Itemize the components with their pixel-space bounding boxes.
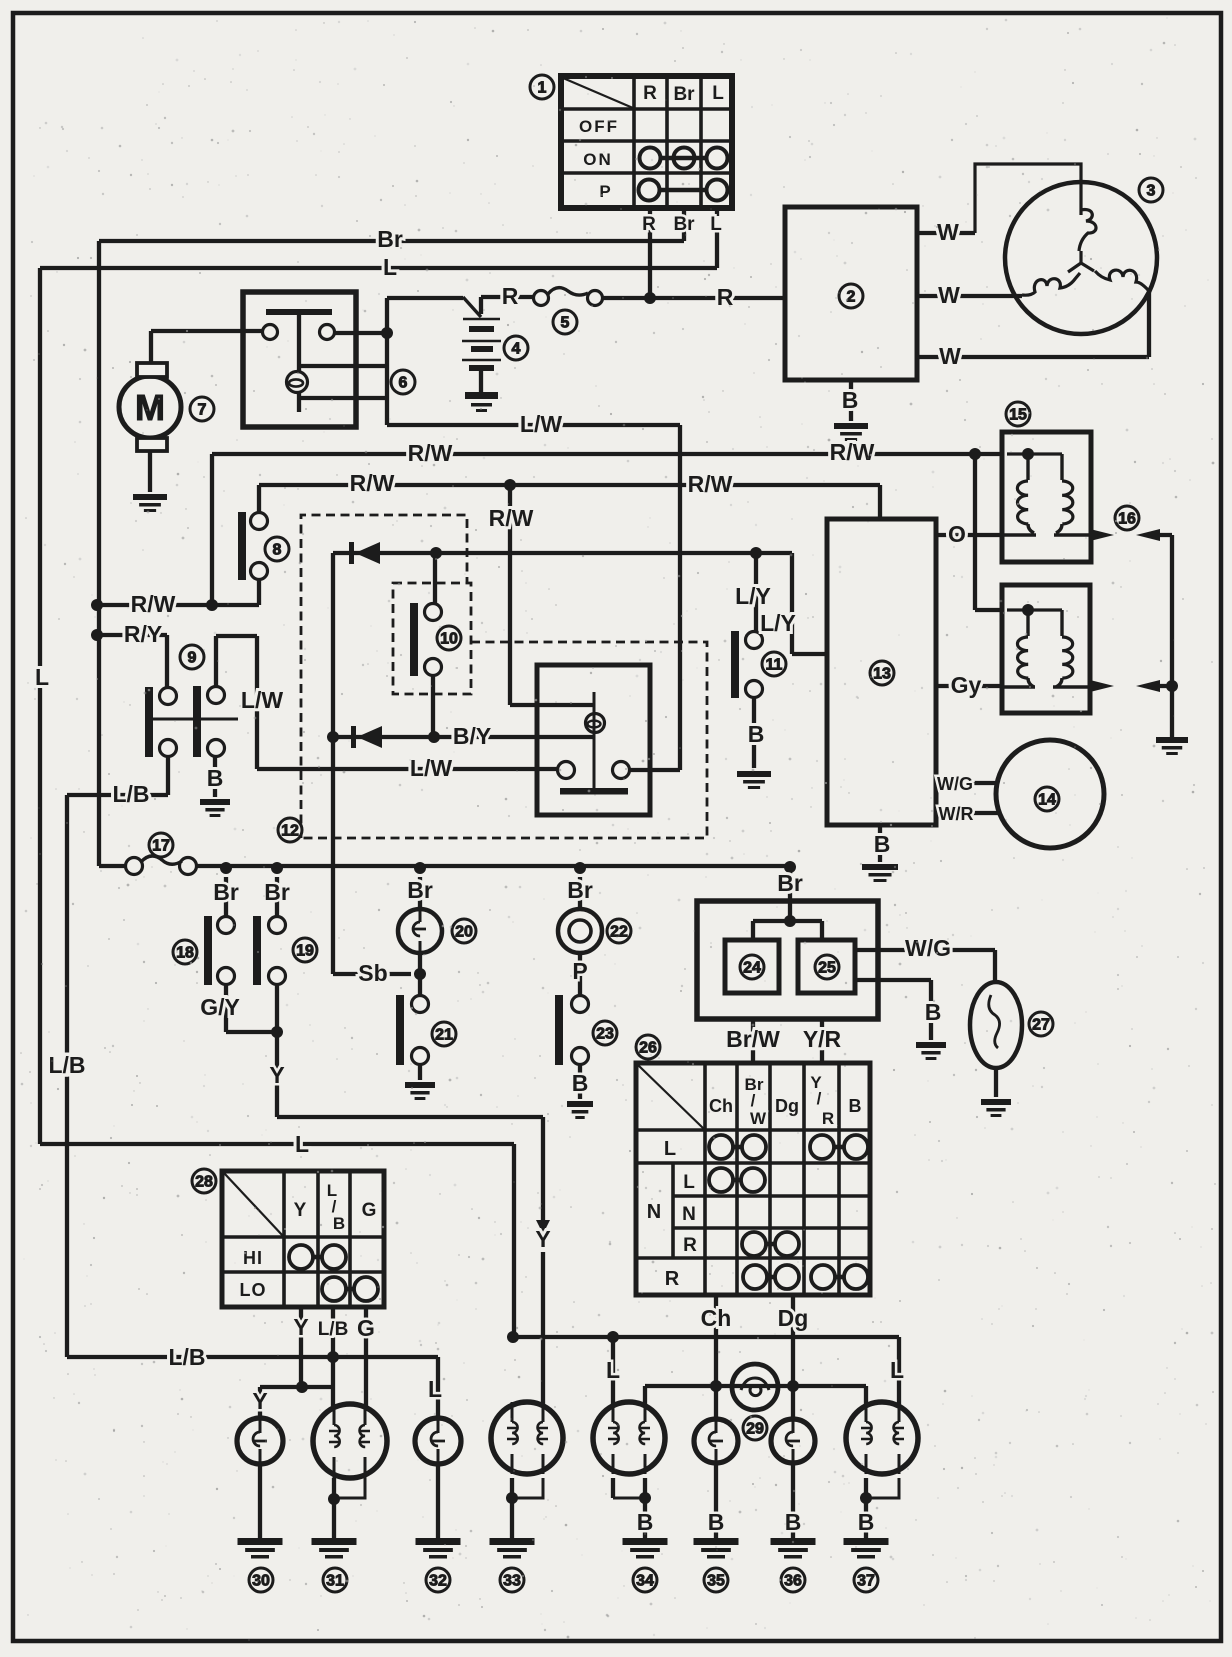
svg-text:B: B bbox=[858, 1509, 875, 1535]
svg-text:31: 31 bbox=[326, 1573, 344, 1590]
svg-text:L: L bbox=[35, 664, 49, 690]
svg-text:Ch: Ch bbox=[709, 1096, 733, 1116]
svg-text:R/W: R/W bbox=[131, 591, 176, 617]
svg-text:8: 8 bbox=[273, 542, 282, 559]
svg-text:14: 14 bbox=[1038, 792, 1056, 809]
svg-text:9: 9 bbox=[188, 650, 197, 667]
svg-text:L/W: L/W bbox=[241, 687, 283, 713]
svg-text:27: 27 bbox=[1032, 1017, 1050, 1034]
svg-text:W/G: W/G bbox=[905, 935, 951, 961]
svg-text:G/Y: G/Y bbox=[200, 994, 240, 1020]
svg-text:R/W: R/W bbox=[489, 505, 534, 531]
svg-text:Br: Br bbox=[777, 870, 803, 896]
svg-text:33: 33 bbox=[503, 1573, 521, 1590]
svg-text:Br: Br bbox=[264, 879, 290, 905]
svg-text:ON: ON bbox=[583, 150, 613, 169]
svg-text:B: B bbox=[708, 1509, 725, 1535]
svg-text:L/Y: L/Y bbox=[735, 583, 771, 609]
svg-text:R/W: R/W bbox=[350, 470, 395, 496]
svg-text:R: R bbox=[642, 214, 656, 235]
svg-text:Y: Y bbox=[269, 1062, 284, 1088]
svg-text:Dg: Dg bbox=[775, 1096, 799, 1116]
svg-text:13: 13 bbox=[873, 666, 891, 683]
svg-text:R/Y: R/Y bbox=[124, 621, 162, 647]
svg-text:L/B: L/B bbox=[318, 1319, 349, 1340]
svg-text:29: 29 bbox=[746, 1421, 764, 1438]
svg-text:15: 15 bbox=[1009, 407, 1027, 424]
svg-text:26: 26 bbox=[639, 1040, 657, 1057]
svg-text:Y/R: Y/R bbox=[803, 1026, 842, 1052]
svg-text:Br: Br bbox=[213, 879, 239, 905]
svg-text:Br: Br bbox=[407, 877, 433, 903]
svg-text:2: 2 bbox=[847, 289, 856, 306]
svg-text:L/Y: L/Y bbox=[760, 610, 796, 636]
svg-text:P: P bbox=[572, 958, 587, 984]
svg-text:3: 3 bbox=[1147, 183, 1156, 200]
svg-text:R: R bbox=[502, 283, 519, 309]
svg-text:32: 32 bbox=[429, 1573, 447, 1590]
svg-text:4: 4 bbox=[512, 341, 521, 358]
svg-text:6: 6 bbox=[399, 375, 408, 392]
svg-text:B: B bbox=[842, 387, 859, 413]
svg-text:Gy: Gy bbox=[951, 672, 982, 698]
svg-text:Y: Y bbox=[293, 1314, 308, 1340]
svg-text:35: 35 bbox=[707, 1573, 725, 1590]
svg-text:G: G bbox=[357, 1315, 375, 1341]
svg-text:37: 37 bbox=[857, 1573, 875, 1590]
svg-text:R/W: R/W bbox=[830, 439, 875, 465]
svg-text:1: 1 bbox=[538, 80, 547, 97]
svg-text:L: L bbox=[890, 1357, 904, 1383]
svg-text:Br: Br bbox=[673, 214, 695, 235]
svg-text:Dg: Dg bbox=[778, 1305, 809, 1331]
svg-text:L: L bbox=[295, 1131, 309, 1157]
svg-text:11: 11 bbox=[766, 657, 783, 674]
svg-text:N: N bbox=[682, 1204, 696, 1225]
svg-text:L/W: L/W bbox=[520, 411, 562, 437]
svg-text:L/B: L/B bbox=[168, 1344, 205, 1370]
svg-text:L/B: L/B bbox=[48, 1052, 85, 1078]
svg-text:P: P bbox=[599, 182, 610, 201]
svg-text:Br/W: Br/W bbox=[726, 1026, 780, 1052]
svg-text:Y: Y bbox=[294, 1200, 307, 1221]
svg-text:G: G bbox=[362, 1200, 377, 1221]
svg-text:36: 36 bbox=[784, 1573, 802, 1590]
svg-text:R/W: R/W bbox=[408, 440, 453, 466]
svg-text:W: W bbox=[939, 343, 961, 369]
svg-text:5: 5 bbox=[561, 315, 570, 332]
svg-text:M: M bbox=[135, 387, 165, 428]
svg-text:B: B bbox=[572, 1070, 589, 1096]
svg-text:W: W bbox=[937, 219, 959, 245]
svg-text:B: B bbox=[637, 1509, 654, 1535]
svg-text:12: 12 bbox=[281, 823, 299, 840]
svg-text:L: L bbox=[712, 83, 724, 104]
svg-text:R: R bbox=[822, 1109, 834, 1128]
svg-text:24: 24 bbox=[743, 960, 761, 977]
svg-text:16: 16 bbox=[1118, 511, 1136, 528]
svg-text:R: R bbox=[683, 1235, 697, 1256]
svg-text:30: 30 bbox=[252, 1573, 270, 1590]
svg-text:B: B bbox=[333, 1214, 345, 1233]
svg-text:17: 17 bbox=[152, 838, 170, 855]
svg-text:W: W bbox=[938, 282, 960, 308]
svg-text:28: 28 bbox=[195, 1174, 213, 1191]
svg-text:B: B bbox=[785, 1509, 802, 1535]
svg-text:Br: Br bbox=[377, 226, 403, 252]
svg-text:L: L bbox=[664, 1138, 676, 1160]
svg-text:B/Y: B/Y bbox=[453, 723, 491, 749]
svg-text:L: L bbox=[710, 214, 722, 235]
svg-text:25: 25 bbox=[818, 960, 836, 977]
svg-text:R: R bbox=[665, 1268, 680, 1290]
svg-text:HI: HI bbox=[243, 1248, 263, 1268]
svg-text:Sb: Sb bbox=[358, 960, 387, 986]
svg-text:W/G: W/G bbox=[937, 774, 973, 794]
svg-text:B: B bbox=[748, 721, 765, 747]
svg-text:Br: Br bbox=[567, 877, 593, 903]
svg-text:21: 21 bbox=[435, 1027, 453, 1044]
svg-text:B: B bbox=[849, 1096, 862, 1116]
svg-text:20: 20 bbox=[455, 924, 473, 941]
svg-text:22: 22 bbox=[610, 924, 628, 941]
svg-text:34: 34 bbox=[636, 1573, 654, 1590]
svg-text:L: L bbox=[428, 1376, 442, 1402]
svg-text:/: / bbox=[817, 1089, 822, 1108]
svg-text:N: N bbox=[647, 1201, 661, 1223]
svg-text:19: 19 bbox=[296, 943, 314, 960]
svg-text:10: 10 bbox=[440, 631, 458, 648]
svg-text:18: 18 bbox=[176, 945, 194, 962]
svg-text:7: 7 bbox=[198, 402, 207, 419]
svg-text:23: 23 bbox=[596, 1026, 614, 1043]
svg-text:L/B: L/B bbox=[112, 781, 149, 807]
svg-text:L: L bbox=[683, 1172, 695, 1193]
svg-text:Y: Y bbox=[252, 1388, 267, 1414]
svg-text:Y: Y bbox=[535, 1226, 550, 1252]
svg-text:L: L bbox=[383, 254, 397, 280]
svg-text:R/W: R/W bbox=[688, 471, 733, 497]
svg-text:LO: LO bbox=[240, 1280, 267, 1300]
svg-text:B: B bbox=[207, 765, 224, 791]
svg-text:OFF: OFF bbox=[579, 117, 619, 136]
svg-text:/: / bbox=[751, 1091, 756, 1110]
svg-text:W: W bbox=[750, 1109, 767, 1128]
svg-text:R: R bbox=[643, 83, 657, 104]
svg-text:B: B bbox=[925, 999, 942, 1025]
svg-text:B: B bbox=[874, 831, 891, 857]
svg-text:Ch: Ch bbox=[701, 1305, 732, 1331]
svg-text:W/R: W/R bbox=[939, 804, 974, 824]
svg-text:L/W: L/W bbox=[410, 755, 452, 781]
